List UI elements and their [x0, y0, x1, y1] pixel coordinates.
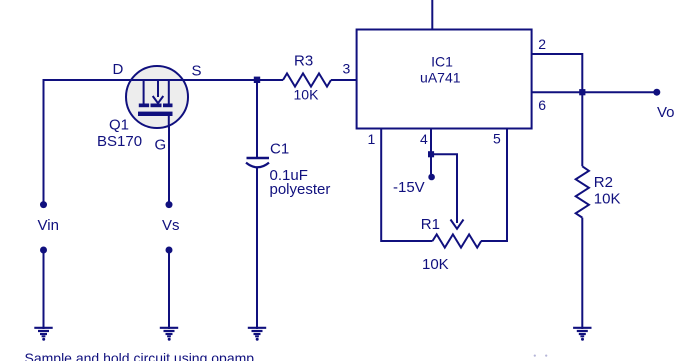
- svg-text:Q1: Q1: [109, 117, 129, 134]
- terminal dot Vs top: [166, 201, 173, 208]
- svg-text:polyester: polyester: [270, 181, 331, 198]
- svg-text:Sample and hold circuit using: Sample and hold circuit using opamp: [25, 350, 255, 361]
- Q1 arrowhead: [153, 96, 164, 103]
- Q1 source contact vertical: [168, 80, 170, 104]
- capacitor C1: [246, 158, 269, 167]
- wire R1 to pin 5: [481, 129, 507, 242]
- svg-text:2: 2: [538, 36, 546, 52]
- svg-text:D: D: [113, 61, 124, 78]
- ground at C1: [248, 328, 266, 341]
- terminal dot -15V: [428, 174, 435, 181]
- svg-text:5: 5: [493, 131, 501, 147]
- wire main horizontal rail D-S to R3: [43, 79, 284, 81]
- wire output node down to R2: [581, 92, 583, 166]
- op-amp IC1 box: [357, 30, 532, 129]
- wire pin 2 feedback: [532, 54, 583, 92]
- ground at R2: [573, 328, 591, 341]
- svg-text:S: S: [192, 62, 202, 79]
- wiper arrowhead of R1: [451, 220, 464, 229]
- wire pin 6 output to Vo: [532, 91, 654, 93]
- Q1 channel bar segment 2: [151, 104, 162, 108]
- wire R2 to ground: [581, 218, 583, 329]
- Q1 gate vertical below substrate: [168, 116, 170, 128]
- svg-text:4: 4: [420, 131, 428, 147]
- terminal dot Vo: [653, 89, 660, 96]
- Q1 channel bar segment 1: [139, 104, 149, 108]
- Q1 substrate bar: [138, 112, 173, 116]
- svg-text:3: 3: [343, 61, 351, 77]
- svg-text:C1: C1: [270, 141, 289, 158]
- svg-text:Vo: Vo: [657, 104, 675, 121]
- svg-text:R1: R1: [421, 216, 440, 233]
- wire C1 top lead: [256, 80, 258, 157]
- svg-text:6: 6: [538, 97, 546, 113]
- terminal dot Vin top: [40, 201, 47, 208]
- ground at Vs: [160, 328, 178, 341]
- svg-text:10K: 10K: [294, 87, 320, 103]
- svg-text:R3: R3: [294, 53, 313, 70]
- terminal dot Vin bottom: [40, 247, 47, 254]
- node junction pin4 branch: [428, 151, 434, 157]
- node junction C1 / rail: [254, 77, 260, 83]
- svg-text:R2: R2: [594, 174, 613, 191]
- svg-text:-15V: -15V: [393, 179, 425, 196]
- wire gate to Vs terminal: [168, 115, 170, 202]
- wire R3 to IC1 pin 3: [331, 79, 357, 81]
- wire pin 4 down to -15V: [430, 129, 432, 175]
- Q1 arrow stem: [157, 80, 159, 97]
- svg-text:10K: 10K: [422, 256, 449, 273]
- wire Vin lower to ground: [43, 253, 45, 329]
- resistor R3: [283, 73, 331, 86]
- svg-text:10K: 10K: [594, 191, 621, 208]
- terminal dot Vs bottom: [166, 247, 173, 254]
- wire Vs lower to ground: [168, 253, 170, 329]
- wire through Q1 drain-source: [126, 79, 188, 81]
- wire C1 bottom lead to ground: [256, 168, 258, 330]
- resistor R2: [576, 166, 589, 217]
- svg-text:1: 1: [368, 131, 376, 147]
- svg-text:IC1: IC1: [431, 54, 453, 70]
- svg-text:BS170: BS170: [97, 133, 142, 150]
- ground at Vin: [34, 328, 52, 341]
- svg-text:Vs: Vs: [162, 217, 180, 234]
- resistor R1: [433, 234, 482, 247]
- wire V+ supply to IC1 top: [431, 0, 433, 30]
- wire Vin vertical to drain rail: [43, 80, 45, 202]
- wire pin 1 down and across to R1: [381, 129, 432, 242]
- svg-text:uA741: uA741: [420, 69, 461, 85]
- node junction output / R2: [579, 89, 585, 95]
- Q1 drain contact vertical: [143, 80, 145, 104]
- transistor Q1 body circle: [126, 66, 188, 128]
- svg-text:Vin: Vin: [38, 217, 59, 234]
- wire pin 4 branch to R1 wiper: [431, 154, 457, 223]
- svg-text:G: G: [155, 136, 167, 153]
- Q1 channel bar segment 3: [163, 104, 173, 108]
